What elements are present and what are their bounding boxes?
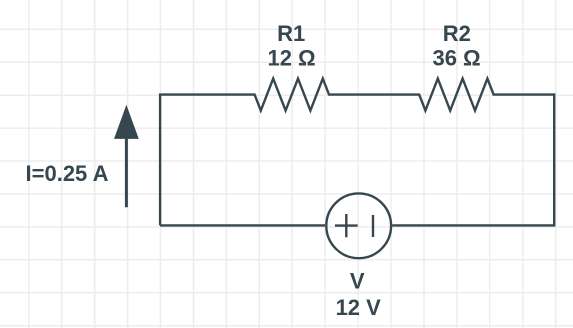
svg-text:I=0.25 A: I=0.25 A: [26, 161, 109, 186]
svg-text:36 Ω: 36 Ω: [432, 46, 480, 71]
svg-text:R2: R2: [443, 21, 471, 46]
svg-text:12 V: 12 V: [336, 295, 382, 320]
svg-text:R1: R1: [277, 21, 305, 46]
svg-text:V: V: [350, 269, 365, 294]
svg-text:12 Ω: 12 Ω: [267, 46, 315, 71]
